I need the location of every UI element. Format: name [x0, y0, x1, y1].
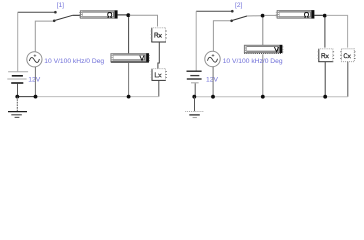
wire switch pole to ammeter: [73, 14, 80, 16]
junction dot rail-Rx right: [323, 95, 327, 99]
switch S1 top throw contact dot: [54, 11, 57, 14]
wire AC source bottom to rail: [34, 67, 36, 97]
junction dot rail-voltmeter: [127, 95, 131, 99]
svg-text:12V: 12V: [206, 77, 218, 84]
subcircuit Rx box right: [318, 49, 335, 62]
battery V3 plate short upper: [190, 75, 199, 77]
junction dot rail-battery: [15, 95, 19, 99]
battery V3 plate short bottom: [191, 82, 199, 84]
junction dot rail-battery right: [192, 95, 196, 99]
node B junction dot: [261, 14, 265, 18]
svg-text:10 V/100 kHz/0 Deg: 10 V/100 kHz/0 Deg: [223, 58, 283, 65]
battery V1 12V plate long top: [8, 71, 28, 73]
battery V3 plate long lower: [187, 78, 202, 80]
junction dot rail-AC: [34, 95, 38, 99]
voltmeter V right body: [244, 45, 283, 54]
wire top-left horizontal right circuit: [196, 10, 232, 12]
AC source plus sign: [34, 54, 37, 57]
wire node B down to voltmeter right: [262, 18, 264, 46]
wire top-left horizontal (battery to switch top throw): [18, 11, 56, 13]
battery V1 plate short upper: [12, 75, 23, 77]
battery V1 plate short bottom: [11, 82, 23, 84]
wire ammeter to node C: [314, 14, 323, 16]
wire node A to Rx branch corner: [130, 15, 158, 26]
wire AC branch top (corner to switch bottom throw): [35, 21, 54, 51]
wire ammeter to node A: [117, 14, 126, 16]
wire battery bottom stem: [17, 84, 19, 97]
AC source V2 circle: [27, 52, 42, 67]
node A junction dot: [126, 13, 130, 17]
svg-text:12V: 12V: [28, 77, 40, 84]
bottom rail left circuit: [17, 96, 35, 98]
ground symbol left: [8, 97, 27, 118]
svg-text:10 V/100 kHz/0 Deg: 10 V/100 kHz/0 Deg: [44, 58, 104, 65]
ammeter A1 body: [79, 10, 117, 18]
voltmeter V left body: [111, 53, 150, 62]
AC source sine wave right: [208, 57, 218, 62]
wire switch pole to node B: [247, 15, 261, 17]
ammeter A2 body: [276, 10, 314, 18]
subcircuit Lx box: [151, 69, 167, 81]
switch S2 bottom throw contact dot: [230, 20, 233, 23]
wire Rx right to bottom rail: [324, 62, 326, 97]
svg-text:[2]: [2]: [235, 2, 243, 9]
junction dot rail-voltmeter right: [261, 95, 265, 99]
wire left vertical right circuit: [195, 11, 197, 71]
switch S1 blade: [54, 15, 72, 20]
switch S1 bottom throw contact dot: [53, 20, 56, 23]
wire Rx to Lx: [158, 42, 159, 69]
battery V1 plate long lower: [7, 78, 26, 80]
wire Lx to bottom rail: [158, 80, 160, 96]
subcircuit Cx box: [340, 49, 355, 62]
wire battery bottom stem right: [194, 83, 196, 96]
subcircuit Rx box left: [151, 28, 167, 42]
wire Cx to bottom rail: [347, 62, 349, 97]
switch S2 blade: [232, 16, 247, 21]
wire node A down to voltmeter: [128, 17, 130, 53]
ground symbol right: [185, 97, 204, 118]
junction dot rail-AC right: [211, 95, 215, 99]
wire node C down to Rx: [324, 17, 326, 47]
wire AC branch top right circuit: [213, 21, 230, 52]
bottom rail right circuit: [194, 96, 347, 98]
wire node B to ammeter: [264, 14, 277, 16]
battery V3 plate long top: [187, 70, 202, 72]
svg-text:[1]: [1]: [57, 2, 65, 9]
AC source V4 circle: [205, 51, 220, 66]
switch S2 top throw contact dot: [231, 10, 234, 13]
wire left vertical (top corner down to battery): [17, 12, 19, 71]
AC source plus sign right: [212, 54, 215, 57]
node C junction dot: [323, 14, 327, 18]
wire voltmeter right to bottom rail: [262, 54, 264, 96]
wire node C to Cx branch corner: [326, 15, 347, 47]
AC source sine wave: [29, 58, 39, 63]
wire voltmeter to bottom rail: [128, 63, 130, 97]
wire AC source right bottom to rail: [212, 67, 214, 97]
